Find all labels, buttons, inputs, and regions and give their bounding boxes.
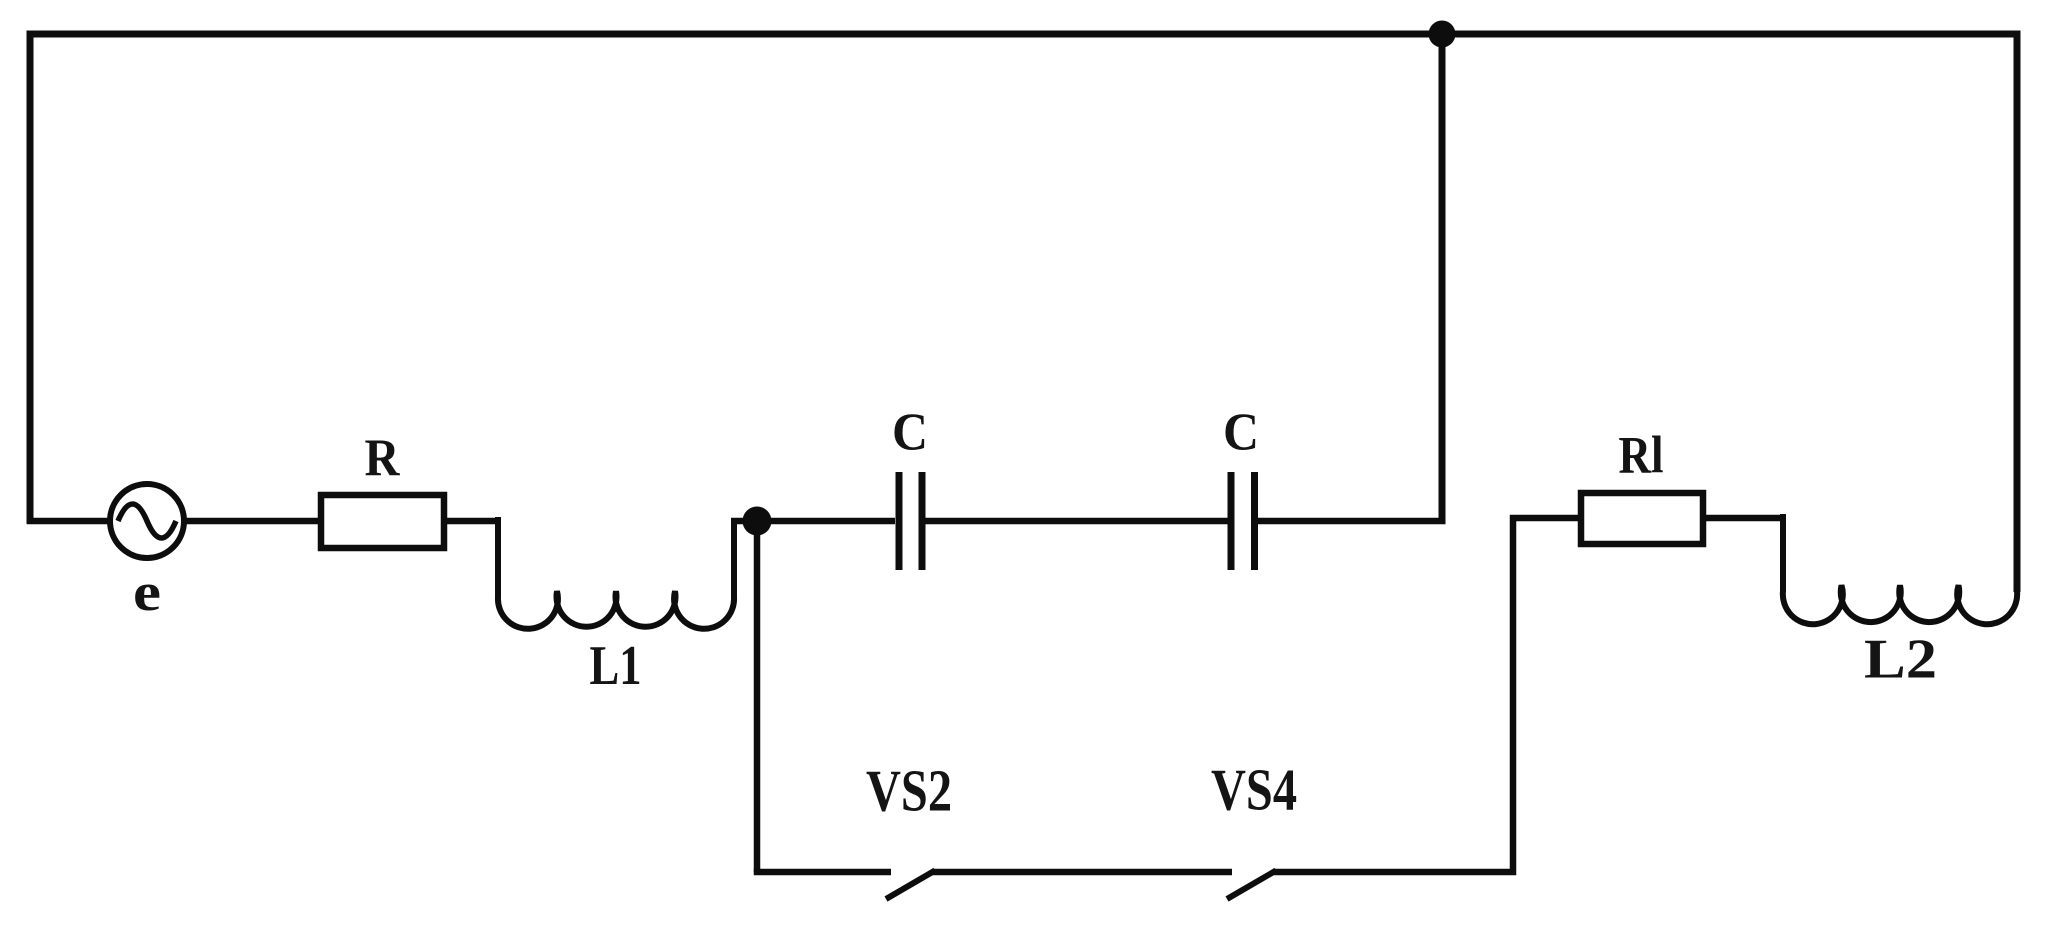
wire bottom rail right segment and riser to Rl [1274,518,1581,872]
resistor R [321,495,444,548]
wire bottom rail middle segment [932,869,1232,876]
svg-text:e: e [133,562,161,622]
junction dot on top rail [1429,21,1456,48]
wire resistor R to inductor L1 [444,518,498,525]
wire C2 to riser [1258,518,1446,525]
svg-text:C: C [1223,404,1259,462]
inductor L2 [1783,514,2017,624]
capacitor C2 left plate [1228,472,1235,570]
svg-text:VS4: VS4 [1211,757,1297,823]
wire C1 to C2 [926,518,1228,525]
svg-text:VS2: VS2 [866,758,952,824]
svg-text:L2: L2 [1864,629,1937,691]
wire source to resistor R [183,518,322,525]
wire bottom rail left segment [754,869,891,876]
switch VS2 blade [886,871,935,900]
capacitor C2 right plate [1251,472,1258,570]
capacitor C1 right plate [919,472,926,570]
resistor Rl [1581,493,1703,544]
switch VS4 blade [1227,871,1276,900]
svg-text:L1: L1 [590,635,642,697]
wire node down to bottom rail [754,521,761,872]
wire Rl to inductor L2 [1703,515,1783,522]
wire L1 to capacitor C1 [731,518,895,525]
AC source e [110,484,184,558]
svg-text:R: R [365,429,401,487]
inductor L1 [498,517,734,629]
svg-text:C: C [892,404,928,462]
wire riser to top rail [1439,34,1446,521]
sine wave inside source [118,504,176,538]
wire from left frame to source [27,518,111,525]
node junction dot [743,507,772,536]
svg-text:Rl: Rl [1619,427,1664,485]
capacitor C1 left plate [896,472,903,570]
wire top rail and left/right frame [30,34,2017,592]
